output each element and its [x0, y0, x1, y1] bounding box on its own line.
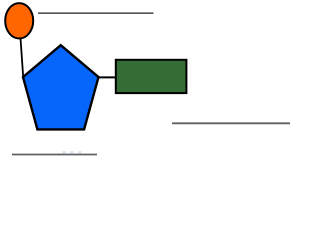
wire: pentagon to rectangle [98, 76, 117, 78]
wire: circle to pentagon [21, 38, 24, 77]
label line bottom left [12, 154, 97, 156]
faint blue dots [62, 151, 81, 153]
label line top [38, 12, 154, 14]
phosphate circle P [5, 3, 33, 38]
sugar pentagon [23, 45, 99, 129]
base rectangle [116, 60, 187, 93]
label line right [172, 122, 290, 124]
